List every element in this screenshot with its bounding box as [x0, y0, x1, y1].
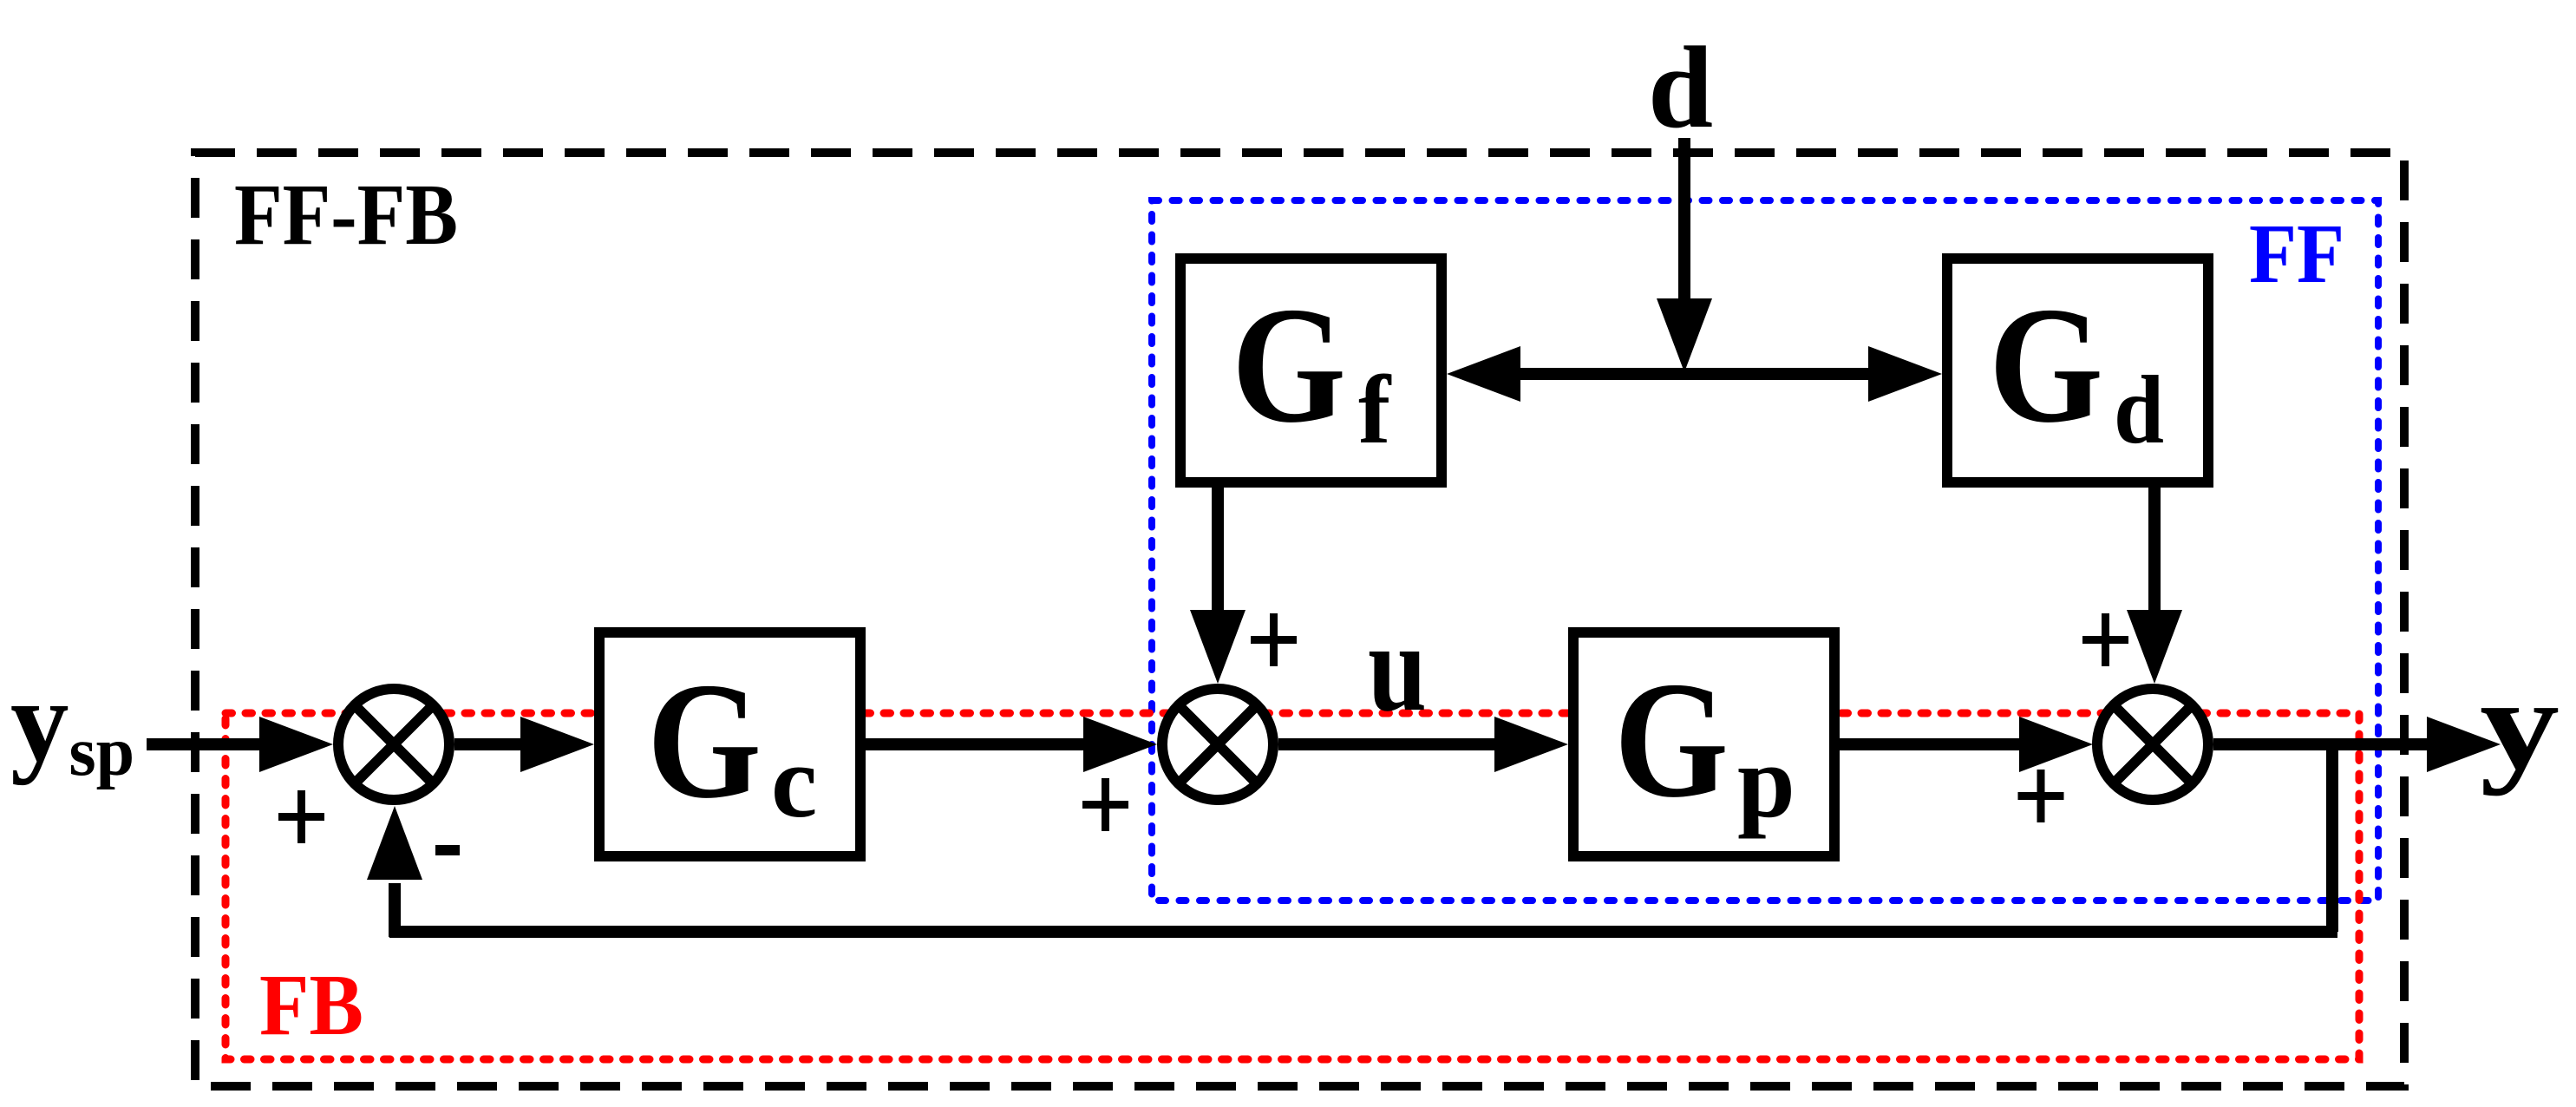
svg-text:d: d [2114, 357, 2164, 464]
svg-text:y: y [2480, 652, 2560, 796]
svg-text:G: G [1232, 272, 1346, 457]
svg-text:u: u [1368, 597, 1427, 737]
svg-text:d: d [1648, 23, 1713, 153]
svg-text:G: G [1614, 647, 1729, 832]
svg-text:FB: FB [259, 956, 363, 1053]
svg-text:G: G [647, 648, 762, 833]
svg-text:p: p [1737, 724, 1795, 839]
svg-text:FF-FB: FF-FB [234, 166, 458, 263]
svg-text:c: c [771, 724, 817, 839]
svg-text:f: f [1358, 357, 1392, 464]
svg-text:G: G [1989, 272, 2103, 457]
svg-text:FF: FF [2249, 207, 2344, 301]
